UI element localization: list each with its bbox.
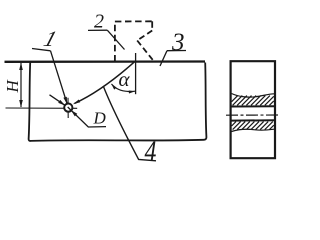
side section view: outer rectangle (231, 61, 275, 158)
underline shelf of label 3 (167, 50, 186, 52)
vertical centerline through focus (67, 98, 69, 118)
hatching of lower band (232, 122, 274, 130)
svg-text:4: 4 (145, 136, 157, 167)
alpha arc arrowhead left (111, 84, 116, 90)
hatching of upper band (232, 96, 274, 106)
main converging ray (beam) from tool tip to focus, with arrowhead (75, 61, 136, 104)
leader of label D with arrowhead at circle (68, 107, 106, 127)
svg-text:α: α (119, 67, 131, 91)
H dimension arrow down (19, 100, 23, 108)
H dimension arrow up (19, 63, 23, 71)
tool/lens dashed profile: notch lower diagonal to surface (137, 41, 153, 61)
leader line of label 3 to surface (160, 51, 167, 66)
workpiece block outline (left, bottom, right edges) (29, 63, 207, 141)
workpiece top surface, line pointed by leader 3 (5, 60, 206, 63)
svg-text:D: D (93, 109, 107, 128)
leader line of label 4 from ray down to shelf (103, 86, 156, 161)
underline shelf of label 1 (32, 49, 51, 51)
focus circle (hole), diameter D (64, 104, 72, 112)
svg-text:H: H (3, 78, 22, 93)
lower hatched band: wavy bottom boundary (232, 129, 275, 131)
tool/lens dashed profile: top edge (115, 20, 152, 22)
upper hatched band: wavy top boundary (232, 94, 275, 98)
short ray arrow pointing at focus from upper-left (50, 95, 69, 108)
tool/lens dashed profile: notch upper diagonal (137, 31, 152, 41)
underline shelf of label 2 (88, 29, 107, 31)
leader line of label 1 down to focus circle, with arrowhead (51, 51, 69, 109)
tool/lens dashed profile, item 2: left edge (114, 22, 116, 62)
hole channel centerline (dash-dot) (226, 114, 280, 116)
dimension H: vertical dimension line (20, 63, 22, 107)
horizontal centerline through focus (H extension line) (6, 107, 78, 109)
vertical axis reference line at tool tip (135, 53, 137, 94)
lower hatched band: thick top boundary (hole lower wall) (232, 119, 275, 121)
leader line of label 2 into lens edge (107, 30, 124, 49)
upper hatched band: thick bottom boundary (hole upper wall) (232, 105, 275, 107)
angle alpha dimension arc (112, 84, 136, 92)
tool/lens dashed profile: right edge upper (151, 21, 153, 30)
alpha arc arrowhead right (129, 91, 136, 94)
svg-text:2: 2 (94, 11, 104, 33)
svg-text:3: 3 (171, 29, 185, 56)
